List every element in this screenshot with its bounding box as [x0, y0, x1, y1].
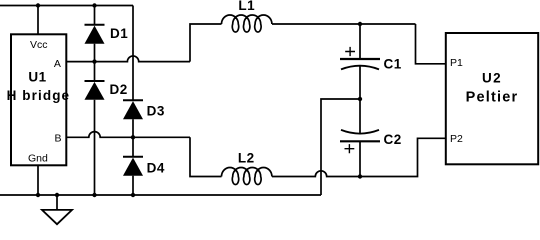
junction dot C1 C2 midpoint [358, 97, 362, 101]
wire node A up to L1 [190, 24, 222, 62]
svg-text:D1: D1 [110, 26, 128, 41]
IC U1 H bridge box [11, 34, 66, 165]
capacitor C1 [340, 24, 380, 99]
inductor L1 [222, 15, 272, 32]
wire D4 to ground rail [132, 176, 134, 195]
wire ground rail riser to capacitor midpoint [321, 99, 360, 195]
wire Gnd pin [37, 165, 39, 195]
wire V2 top rail corner down to D3 [132, 6, 134, 101]
wire D2 to ground rail [94, 100, 96, 195]
svg-text:U1: U1 [28, 70, 46, 85]
diode D1 [85, 25, 105, 44]
capacitor C2 [340, 99, 380, 177]
junction dot C2 bottom [358, 174, 362, 178]
wire node B horizontal with hop [66, 132, 190, 138]
svg-text:P1: P1 [450, 57, 463, 69]
diode D4 [123, 157, 143, 176]
junction dot D4 ground [131, 193, 135, 197]
junction dot node B [131, 135, 135, 139]
svg-text:D4: D4 [147, 161, 165, 176]
svg-text:Peltier: Peltier [466, 89, 519, 105]
wire node A to D2 [94, 62, 96, 81]
junction dot ground symbol [55, 193, 59, 197]
junction dot Vcc pin [36, 3, 40, 7]
svg-text:L2: L2 [238, 150, 255, 165]
wire L1 to P1 corner [272, 23, 416, 25]
svg-text:C1: C1 [384, 56, 402, 71]
svg-text:D3: D3 [147, 103, 165, 118]
wire node A horizontal with hop [66, 56, 190, 62]
wire top rail to D1 [94, 6, 96, 25]
svg-text:U2: U2 [482, 70, 502, 85]
svg-text:B: B [54, 133, 61, 145]
junction dot node A [92, 59, 96, 63]
inductor L2 [222, 167, 272, 184]
wire D1 to node A [94, 44, 96, 62]
svg-text:C2: C2 [384, 132, 402, 147]
wire L2 output to P2 with hop [272, 138, 446, 176]
svg-text:L1: L1 [238, 0, 255, 13]
svg-text:H bridge: H bridge [7, 88, 71, 103]
ground symbol [42, 195, 72, 224]
wire ground rail bottom [0, 194, 321, 196]
diode D2 [85, 81, 105, 100]
svg-text:Gnd: Gnd [28, 153, 48, 165]
wire corner down to P1 [416, 24, 446, 64]
svg-text:D2: D2 [110, 82, 128, 97]
svg-text:P2: P2 [450, 133, 463, 145]
svg-text:A: A [54, 58, 61, 70]
wire node B down to L2 [190, 137, 222, 176]
wire node B to D4 [132, 137, 134, 156]
diode D3 [123, 100, 143, 119]
wire Vcc top rail [0, 5, 133, 7]
svg-text:Vcc: Vcc [30, 39, 48, 51]
wire D3 to node B [132, 119, 134, 137]
junction dot C1 top [358, 22, 362, 26]
wire Vcc pin [37, 6, 39, 35]
IC U2 Peltier box [446, 33, 538, 164]
junction dot top rail D1 [92, 3, 96, 7]
junction dot D2 ground [92, 193, 96, 197]
junction dot Gnd pin [36, 193, 40, 197]
